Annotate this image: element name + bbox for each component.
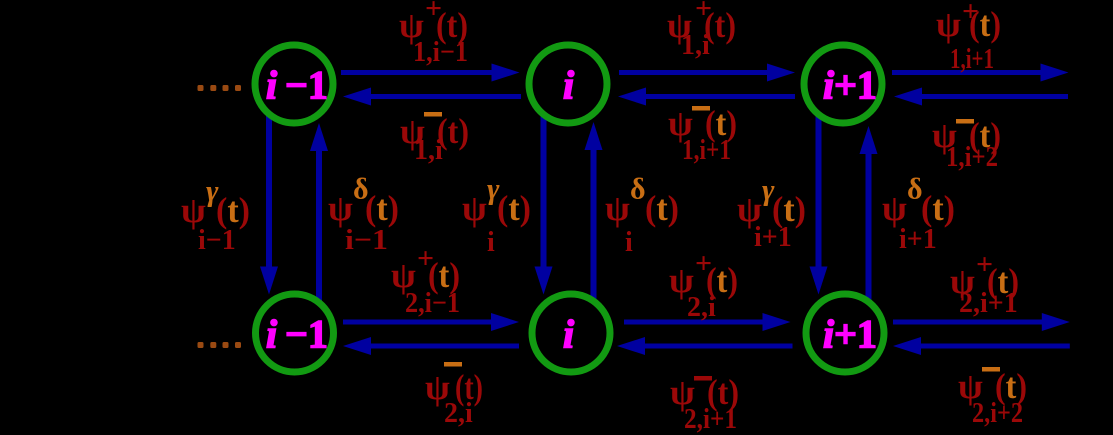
svg-text:i+1: i+1 xyxy=(823,63,877,108)
label rate psi-delta i xyxy=(605,173,679,259)
svg-text:i+1: i+1 xyxy=(899,224,937,255)
node top row site i xyxy=(529,45,607,123)
label rate psi+ 1,i xyxy=(667,0,736,61)
svg-text:2,i+2: 2,i+2 xyxy=(972,398,1023,429)
label rate psi- 1,i xyxy=(400,111,469,166)
svg-text:2,i−1: 2,i−1 xyxy=(405,288,460,319)
wire top rail rightward arrow (i-1 to i), rate psi+ 1,i-1 xyxy=(341,64,520,82)
label rate psi+ 2,i+1 xyxy=(950,248,1019,319)
svg-text:2,i: 2,i xyxy=(444,398,473,429)
svg-text:(t): (t) xyxy=(365,188,399,228)
wire bottom rail leftward arrow (i+1 to i), rate psi- 2,i+1 xyxy=(617,337,793,355)
wire upward arrow column i-1, rate psi-delta i-1 xyxy=(310,123,328,302)
node top row site i+1 xyxy=(804,45,882,123)
label rate psi+ 1,i-1 xyxy=(399,0,468,68)
node top row site i-1 xyxy=(255,45,333,123)
svg-text:ψ: ψ xyxy=(936,4,961,44)
svg-text:i: i xyxy=(563,312,574,357)
wire top rail rightward arrow (i+1 onward), rate psi+ 1,i+1 xyxy=(892,64,1069,82)
svg-text:(t): (t) xyxy=(497,188,531,228)
svg-text:(t): (t) xyxy=(969,4,1001,44)
wire top rail leftward arrow (into i+1), rate psi- 1,i+2 xyxy=(894,88,1068,106)
wire bottom rail rightward arrow (i to i+1), rate psi+ 2,i xyxy=(624,313,791,331)
svg-text:(t): (t) xyxy=(645,188,679,228)
label rate psi- 2,i+1 xyxy=(670,372,739,435)
svg-text:1,i+2: 1,i+2 xyxy=(946,142,998,173)
wire bottom rail leftward arrow (i to i-1), rate psi- 2,i xyxy=(343,337,519,355)
svg-text:ψ: ψ xyxy=(328,188,353,228)
svg-text:1,i+1: 1,i+1 xyxy=(950,44,994,75)
svg-text:δ: δ xyxy=(630,173,646,206)
label rate psi+ 1,i+1 xyxy=(936,0,1001,75)
svg-text:i −1: i −1 xyxy=(266,63,328,108)
svg-text:i+1: i+1 xyxy=(823,312,877,357)
dots bottom-left ellipsis xyxy=(198,342,242,348)
svg-text:i: i xyxy=(487,227,495,258)
svg-text:1,i−1: 1,i−1 xyxy=(413,37,468,68)
svg-text:(t): (t) xyxy=(921,188,955,228)
svg-text:i: i xyxy=(563,63,574,108)
svg-text:i−1: i−1 xyxy=(345,225,388,256)
dots top-left ellipsis xyxy=(198,85,242,91)
label rate psi-gamma i+1 xyxy=(737,174,806,254)
svg-text:ψ: ψ xyxy=(462,188,487,228)
wire bottom rail rightward arrow (i-1 to i), rate psi+ 2,i-1 xyxy=(343,313,519,331)
wire bottom rail rightward arrow (i+1 onward), rate psi+ 2,i+1 xyxy=(893,313,1070,331)
wire top rail leftward arrow (i+1 to i), rate psi- 1,i+1 xyxy=(618,88,795,106)
svg-text:2,i: 2,i xyxy=(687,292,716,323)
wire upward arrow column i+1, rate psi-delta i+1 xyxy=(860,126,878,302)
label rate psi-gamma i xyxy=(462,173,531,259)
svg-text:i−1: i−1 xyxy=(198,225,236,256)
svg-text:ψ: ψ xyxy=(181,190,206,230)
svg-text:i+1: i+1 xyxy=(754,222,792,253)
wire downward arrow column i-1, rate psi-gamma i-1 xyxy=(260,114,278,295)
svg-text:1,i: 1,i xyxy=(681,30,710,61)
label rate psi+ 2,i-1 xyxy=(391,242,460,319)
svg-text:ψ: ψ xyxy=(882,188,907,228)
wire top rail leftward arrow (i to i-1), rate psi- 1,i xyxy=(343,88,521,106)
svg-text:(t): (t) xyxy=(216,190,250,230)
svg-text:i: i xyxy=(625,227,633,258)
wire downward arrow column i+1, rate psi-gamma i+1 xyxy=(810,114,828,295)
svg-text:2,i+1: 2,i+1 xyxy=(684,404,737,435)
wire top rail rightward arrow (i to i+1), rate psi+ 1,i xyxy=(619,64,795,82)
svg-text:i −1: i −1 xyxy=(266,312,328,357)
node bottom row site i-1 xyxy=(256,294,334,372)
label rate psi-delta i+1 xyxy=(882,173,955,256)
wire bottom rail leftward arrow (into i+1), rate psi- 2,i+2 xyxy=(893,337,1070,355)
wire downward arrow column i, rate psi-gamma i xyxy=(535,114,553,295)
label rate psi- 1,i+1 xyxy=(668,103,737,166)
label rate psi+ 2,i xyxy=(669,247,738,323)
node bottom row site i+1 xyxy=(806,294,884,372)
label rate psi- 1,i+2 xyxy=(932,115,1001,173)
svg-text:1,i: 1,i xyxy=(414,135,443,166)
label rate psi-delta i-1 xyxy=(328,173,399,257)
node bottom row site i xyxy=(532,294,610,372)
label rate psi- 2,i xyxy=(425,362,483,429)
svg-text:ψ: ψ xyxy=(605,188,630,228)
wire upward arrow column i, rate psi-delta i xyxy=(585,122,603,302)
label rate psi- 2,i+2 xyxy=(958,366,1027,429)
svg-text:1,i+1: 1,i+1 xyxy=(682,135,731,166)
label rate psi-gamma i-1 xyxy=(181,175,250,257)
svg-text:2,i+1: 2,i+1 xyxy=(959,288,1018,319)
